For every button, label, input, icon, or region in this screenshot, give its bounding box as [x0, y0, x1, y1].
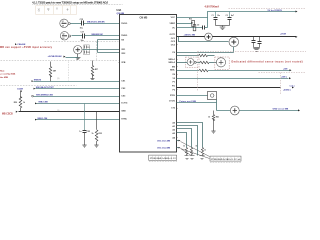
- svg-text:SM: SM: [172, 67, 175, 69]
- svg-text:Q1: Q1: [62, 21, 64, 23]
- dashed vertical annotation line: [68, 62, 70, 81]
- wire C15 to IC: [84, 23, 120, 25]
- svg-text:C2: C2: [226, 15, 228, 17]
- diode pair right of Q3: [84, 45, 90, 55]
- cap C1 on rail: [215, 12, 217, 18]
- svg-text:+5M.DC.MB: +5M.DC.MB: [184, 35, 196, 37]
- svg-text:1k: 1k: [208, 116, 210, 118]
- RT row to fuse box: [177, 95, 208, 97]
- svg-text:+5VM: +5VM: [280, 34, 286, 36]
- svg-text:C8A.BK: C8A.BK: [17, 43, 26, 46]
- svg-text:1k: 1k: [204, 150, 206, 152]
- net row SMC5M: [32, 95, 34, 97]
- svg-text:SEN-: SEN-: [170, 70, 175, 72]
- svg-text:SEN+1: SEN+1: [168, 59, 175, 61]
- svg-text:C17: C17: [81, 32, 84, 34]
- tick row under table 1: [149, 160, 177, 162]
- wire row 39.8: [98, 39, 120, 41]
- svg-text:+4GND.s: +4GND.s: [283, 88, 291, 91]
- capacitor C15: [82, 21, 84, 26]
- svg-text:U3A: U3A: [117, 9, 122, 12]
- legend glyph 1: [38, 8, 40, 11]
- legend box: [36, 6, 77, 15]
- svg-text:VREF: VREF: [169, 23, 175, 25]
- regulator circle V1: [205, 33, 213, 41]
- branch wire down to V2: [179, 37, 229, 42]
- wire vertical at VCC corner: [207, 18, 209, 28]
- svg-text:CT1/G: CT1/G: [169, 101, 176, 103]
- right: VCC wire to 5V rail: [177, 12, 296, 18]
- svg-text:Q2: Q2: [62, 33, 64, 35]
- resistor R30: [92, 61, 94, 66]
- transistor Q3: [74, 46, 82, 54]
- net row MB.D.OM: [35, 119, 37, 121]
- svg-text:1k: 1k: [183, 146, 185, 148]
- svg-text:4R7: 4R7: [95, 68, 98, 71]
- wire Q3 row: [83, 49, 120, 51]
- svg-text:R41: R41: [216, 115, 219, 118]
- svg-text:10u: 10u: [217, 15, 220, 17]
- svg-text:Future use1 MB: Future use1 MB: [180, 100, 197, 103]
- vertical wire x 97.6: [97, 40, 99, 53]
- wire C17 to IC: [85, 35, 120, 37]
- svg-text:OSC.Out1.MB: OSC.Out1.MB: [157, 139, 171, 142]
- svg-text:(3): (3): [57, 78, 60, 80]
- svg-text:VFB: VFB: [121, 62, 126, 64]
- blue label C8A: [15, 43, 17, 45]
- wire +5VSB: [66, 57, 79, 59]
- net row SMB.M: [32, 80, 34, 82]
- right: VC row cap: [177, 27, 203, 29]
- svg-text:OSC.Out2.MB: OSC.Out2.MB: [157, 147, 171, 150]
- svg-text:4.1.1 T3525 patch to new T3556: 4.1.1 T3525 patch to new T3556S2 setup o…: [32, 1, 108, 5]
- dashed box A: [1, 42, 119, 61]
- transistor Q1: [60, 19, 70, 27]
- wire Q1 to C15: [71, 23, 82, 25]
- svg-text:PG: PG: [172, 86, 175, 88]
- wire row 55.5 with series resistor: [177, 55, 199, 57]
- net row MIB.CSB: [35, 103, 37, 105]
- net row SMC4A: [34, 88, 36, 90]
- PG row: [177, 87, 281, 89]
- sense circle S1: [187, 59, 194, 66]
- svg-text:1k: 1k: [196, 146, 198, 148]
- IC left pin labels: [121, 23, 128, 121]
- CT row: [177, 102, 217, 104]
- cap C2 on rail: [229, 12, 231, 18]
- svg-text:MB.DCDC.5M.BK: MB.DCDC.5M.BK: [87, 22, 105, 24]
- resistor RB2: [190, 148, 192, 155]
- svg-text:Xba:: Xba:: [0, 70, 5, 72]
- svg-text:D2: D2: [88, 52, 90, 54]
- svg-text:1N2/G: 1N2/G: [121, 35, 127, 37]
- dashed line top right: [229, 8, 307, 10]
- dashed partial boxes right: [198, 51, 307, 53]
- svg-text:SYNC: SYNC: [121, 119, 127, 121]
- svg-text:+5VSB.R5.BK: +5VSB.R5.BK: [48, 56, 63, 58]
- svg-text:1N1/G: 1N1/G: [121, 23, 127, 25]
- dashed box S2: [215, 57, 229, 69]
- resistor RB3: [201, 148, 203, 155]
- caps right of V2: [253, 37, 255, 41]
- diagonals: [181, 142, 210, 157]
- +5M sense row: [177, 78, 289, 80]
- svg-text:GND: GND: [121, 111, 126, 113]
- svg-text:+5M: +5M: [283, 69, 287, 71]
- svg-text:R12: R12: [189, 18, 192, 20]
- svg-text:5V for IC/MCU: 5V for IC/MCU: [268, 10, 283, 12]
- transistor Q2: [60, 32, 70, 40]
- svg-text:Dedicated differential sense t: Dedicated differential sense traces (not…: [232, 60, 303, 63]
- svg-text:C9: C9: [197, 24, 199, 26]
- svg-text:4u7: 4u7: [231, 14, 234, 17]
- resistor R33 column: [96, 112, 98, 130]
- right: VREF row resistor box: [177, 23, 192, 25]
- legend glyph 4: [67, 8, 69, 11]
- svg-text:VCC: VCC: [171, 17, 176, 19]
- right: +5VM wire: [177, 36, 296, 38]
- IC right pin labels: [168, 17, 175, 139]
- ground for caps: [216, 25, 230, 27]
- svg-text:1CT/G: 1CT/G: [121, 103, 128, 105]
- svg-text:MB can support +5VSB input acc: MB can support +5VSB input accuracy: [0, 46, 53, 49]
- OSC out wires and arrows: [177, 140, 179, 142]
- V2 down wire: [233, 47, 235, 53]
- svg-text:1k: 1k: [23, 102, 25, 104]
- svg-text:JT6962ADJ+MAV+5.1V: JT6962ADJ+MAV+5.1V: [150, 157, 177, 160]
- wire Q2 to C17: [72, 35, 83, 37]
- CS row wire: [177, 52, 234, 54]
- svg-text:MB CSCB: MB CSCB: [2, 113, 13, 115]
- table 1: [149, 155, 177, 160]
- svg-text:1k: 1k: [92, 133, 94, 135]
- sense wire: [177, 62, 188, 64]
- wire row 53.6: [98, 52, 120, 54]
- bottom right staircase wires: [177, 123, 203, 148]
- dashed line left mid: [1, 85, 77, 87]
- svg-text:1u: 1u: [79, 131, 81, 133]
- resistor R29: [50, 62, 52, 67]
- svg-text:R9: R9: [191, 23, 193, 25]
- title dotted underline: [33, 4, 123, 6]
- regulator circle V2: [229, 37, 239, 47]
- svg-text:GND sense MB: GND sense MB: [273, 109, 289, 111]
- svg-text:D1: D1: [88, 47, 90, 49]
- table 2: [210, 156, 241, 161]
- svg-text:C15: C15: [80, 19, 83, 21]
- svg-text:C1: C1: [212, 15, 214, 17]
- svg-text:MB.BM.5M: MB.BM.5M: [92, 34, 103, 36]
- svg-text:R33: R33: [99, 133, 102, 135]
- sense row: dashed box S1: [185, 57, 199, 68]
- svg-text:C52: C52: [87, 131, 90, 133]
- GND sense row with V3: [217, 110, 299, 112]
- svg-text:(3): (3): [57, 110, 60, 112]
- svg-text:+n config 3524: +n config 3524: [0, 72, 16, 75]
- legend glyph 3: [56, 8, 58, 9]
- +5M row: [177, 70, 200, 72]
- svg-text:SEN+2: SEN+2: [168, 62, 175, 64]
- svg-text:OUT1: OUT1: [169, 34, 175, 36]
- legend glyph 2: [47, 9, 49, 11]
- vertical from fuse box: [216, 100, 218, 111]
- IC left pin stub: [119, 62, 120, 64]
- svg-text:SMC5M/M4.CSB: SMC5M/M4.CSB: [36, 93, 53, 96]
- resistor RB1: [185, 148, 187, 155]
- svg-text:4.8V/700mA: 4.8V/700mA: [205, 5, 220, 9]
- svg-text:RT/G: RT/G: [170, 95, 175, 97]
- svg-text:VC: VC: [172, 28, 175, 30]
- svg-text:JT8962ADJ+5AV+5.1V ok: JT8962ADJ+5AV+5.1V ok: [211, 158, 241, 161]
- svg-text:+5M s: +5M s: [281, 76, 288, 78]
- svg-text:CM MB: CM MB: [140, 18, 148, 20]
- sense circle S2: [216, 58, 225, 67]
- svg-text:the MIB: the MIB: [0, 76, 8, 79]
- resistor R41: [213, 111, 215, 115]
- svg-text:C52M: C52M: [17, 89, 23, 91]
- tick row under table 2: [210, 161, 241, 163]
- svg-text:R50: R50: [14, 102, 17, 104]
- ground below Q3: [76, 54, 81, 60]
- IC right pin stubs: [177, 45, 178, 138]
- capacitor C17: [83, 34, 85, 39]
- resistor R9 box: [193, 25, 196, 31]
- capacitor C52 column: [84, 104, 86, 131]
